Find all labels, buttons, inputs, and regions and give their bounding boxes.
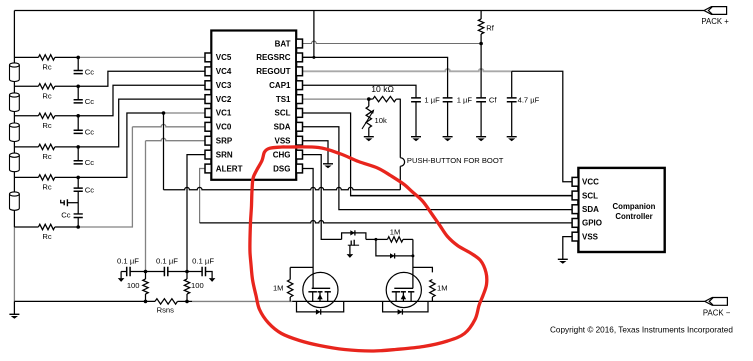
svg-text:GPIO: GPIO [582,219,602,228]
svg-text:REGSRC: REGSRC [256,53,290,62]
svg-text:Cc: Cc [85,97,94,106]
svg-text:VC1: VC1 [216,109,232,118]
svg-text:PACK −: PACK − [703,308,731,317]
svg-text:Rc: Rc [42,232,51,241]
svg-text:Cc: Cc [85,127,94,136]
svg-text:VC3: VC3 [216,81,232,90]
svg-text:VCC: VCC [582,178,599,187]
svg-text:Rc: Rc [42,91,51,100]
svg-text:VSS: VSS [274,137,291,146]
svg-text:CHG: CHG [273,150,291,159]
svg-text:VC5: VC5 [216,53,232,62]
svg-text:Rc: Rc [42,182,51,191]
svg-text:Copyright © 2016, Texas Instru: Copyright © 2016, Texas Instruments Inco… [550,325,733,334]
svg-text:Cc: Cc [85,158,94,167]
svg-text:1M: 1M [390,228,401,237]
svg-text:Rc: Rc [42,62,51,71]
svg-text:Cf: Cf [489,95,497,104]
svg-text:100: 100 [191,281,204,290]
svg-text:SCL: SCL [582,191,598,200]
svg-text:Rf: Rf [486,23,494,32]
svg-text:VC0: VC0 [216,123,232,132]
svg-text:SRP: SRP [216,137,233,146]
svg-text:DSG: DSG [273,164,290,173]
svg-text:PACK +: PACK + [701,17,729,26]
svg-text:BAT: BAT [275,39,291,48]
svg-text:Rc: Rc [42,121,51,130]
svg-text:4.7 µF: 4.7 µF [518,95,540,104]
svg-text:SDA: SDA [582,205,599,214]
svg-text:1M: 1M [437,284,448,293]
svg-text:Controller: Controller [615,212,652,221]
svg-text:Rc: Rc [42,152,51,161]
svg-text:100: 100 [127,281,140,290]
svg-text:10 kΩ: 10 kΩ [371,84,394,94]
svg-text:REGOUT: REGOUT [256,67,290,76]
svg-text:Cc: Cc [85,185,94,194]
svg-text:PUSH-BUTTON FOR BOOT: PUSH-BUTTON FOR BOOT [407,156,504,165]
svg-text:VSS: VSS [582,232,599,241]
svg-text:10k: 10k [375,116,387,125]
svg-text:1 µF: 1 µF [457,95,473,104]
svg-text:0.1 µF: 0.1 µF [117,256,139,265]
svg-text:SCL: SCL [275,109,291,118]
svg-text:1M: 1M [273,284,284,293]
svg-text:ALERT: ALERT [216,164,243,173]
svg-text:Rsns: Rsns [157,306,175,315]
svg-text:1 µF: 1 µF [424,95,440,104]
svg-text:SRN: SRN [216,150,233,159]
svg-text:0.1 µF: 0.1 µF [156,256,178,265]
svg-text:Companion: Companion [613,202,656,211]
svg-text:Cc: Cc [85,68,94,77]
svg-text:SDA: SDA [274,123,291,132]
svg-text:Cc: Cc [61,210,70,219]
svg-text:VC4: VC4 [216,67,232,76]
svg-text:0.1 µF: 0.1 µF [192,256,214,265]
svg-text:TS1: TS1 [276,95,291,104]
svg-text:VC2: VC2 [216,95,232,104]
svg-text:CAP1: CAP1 [269,81,291,90]
